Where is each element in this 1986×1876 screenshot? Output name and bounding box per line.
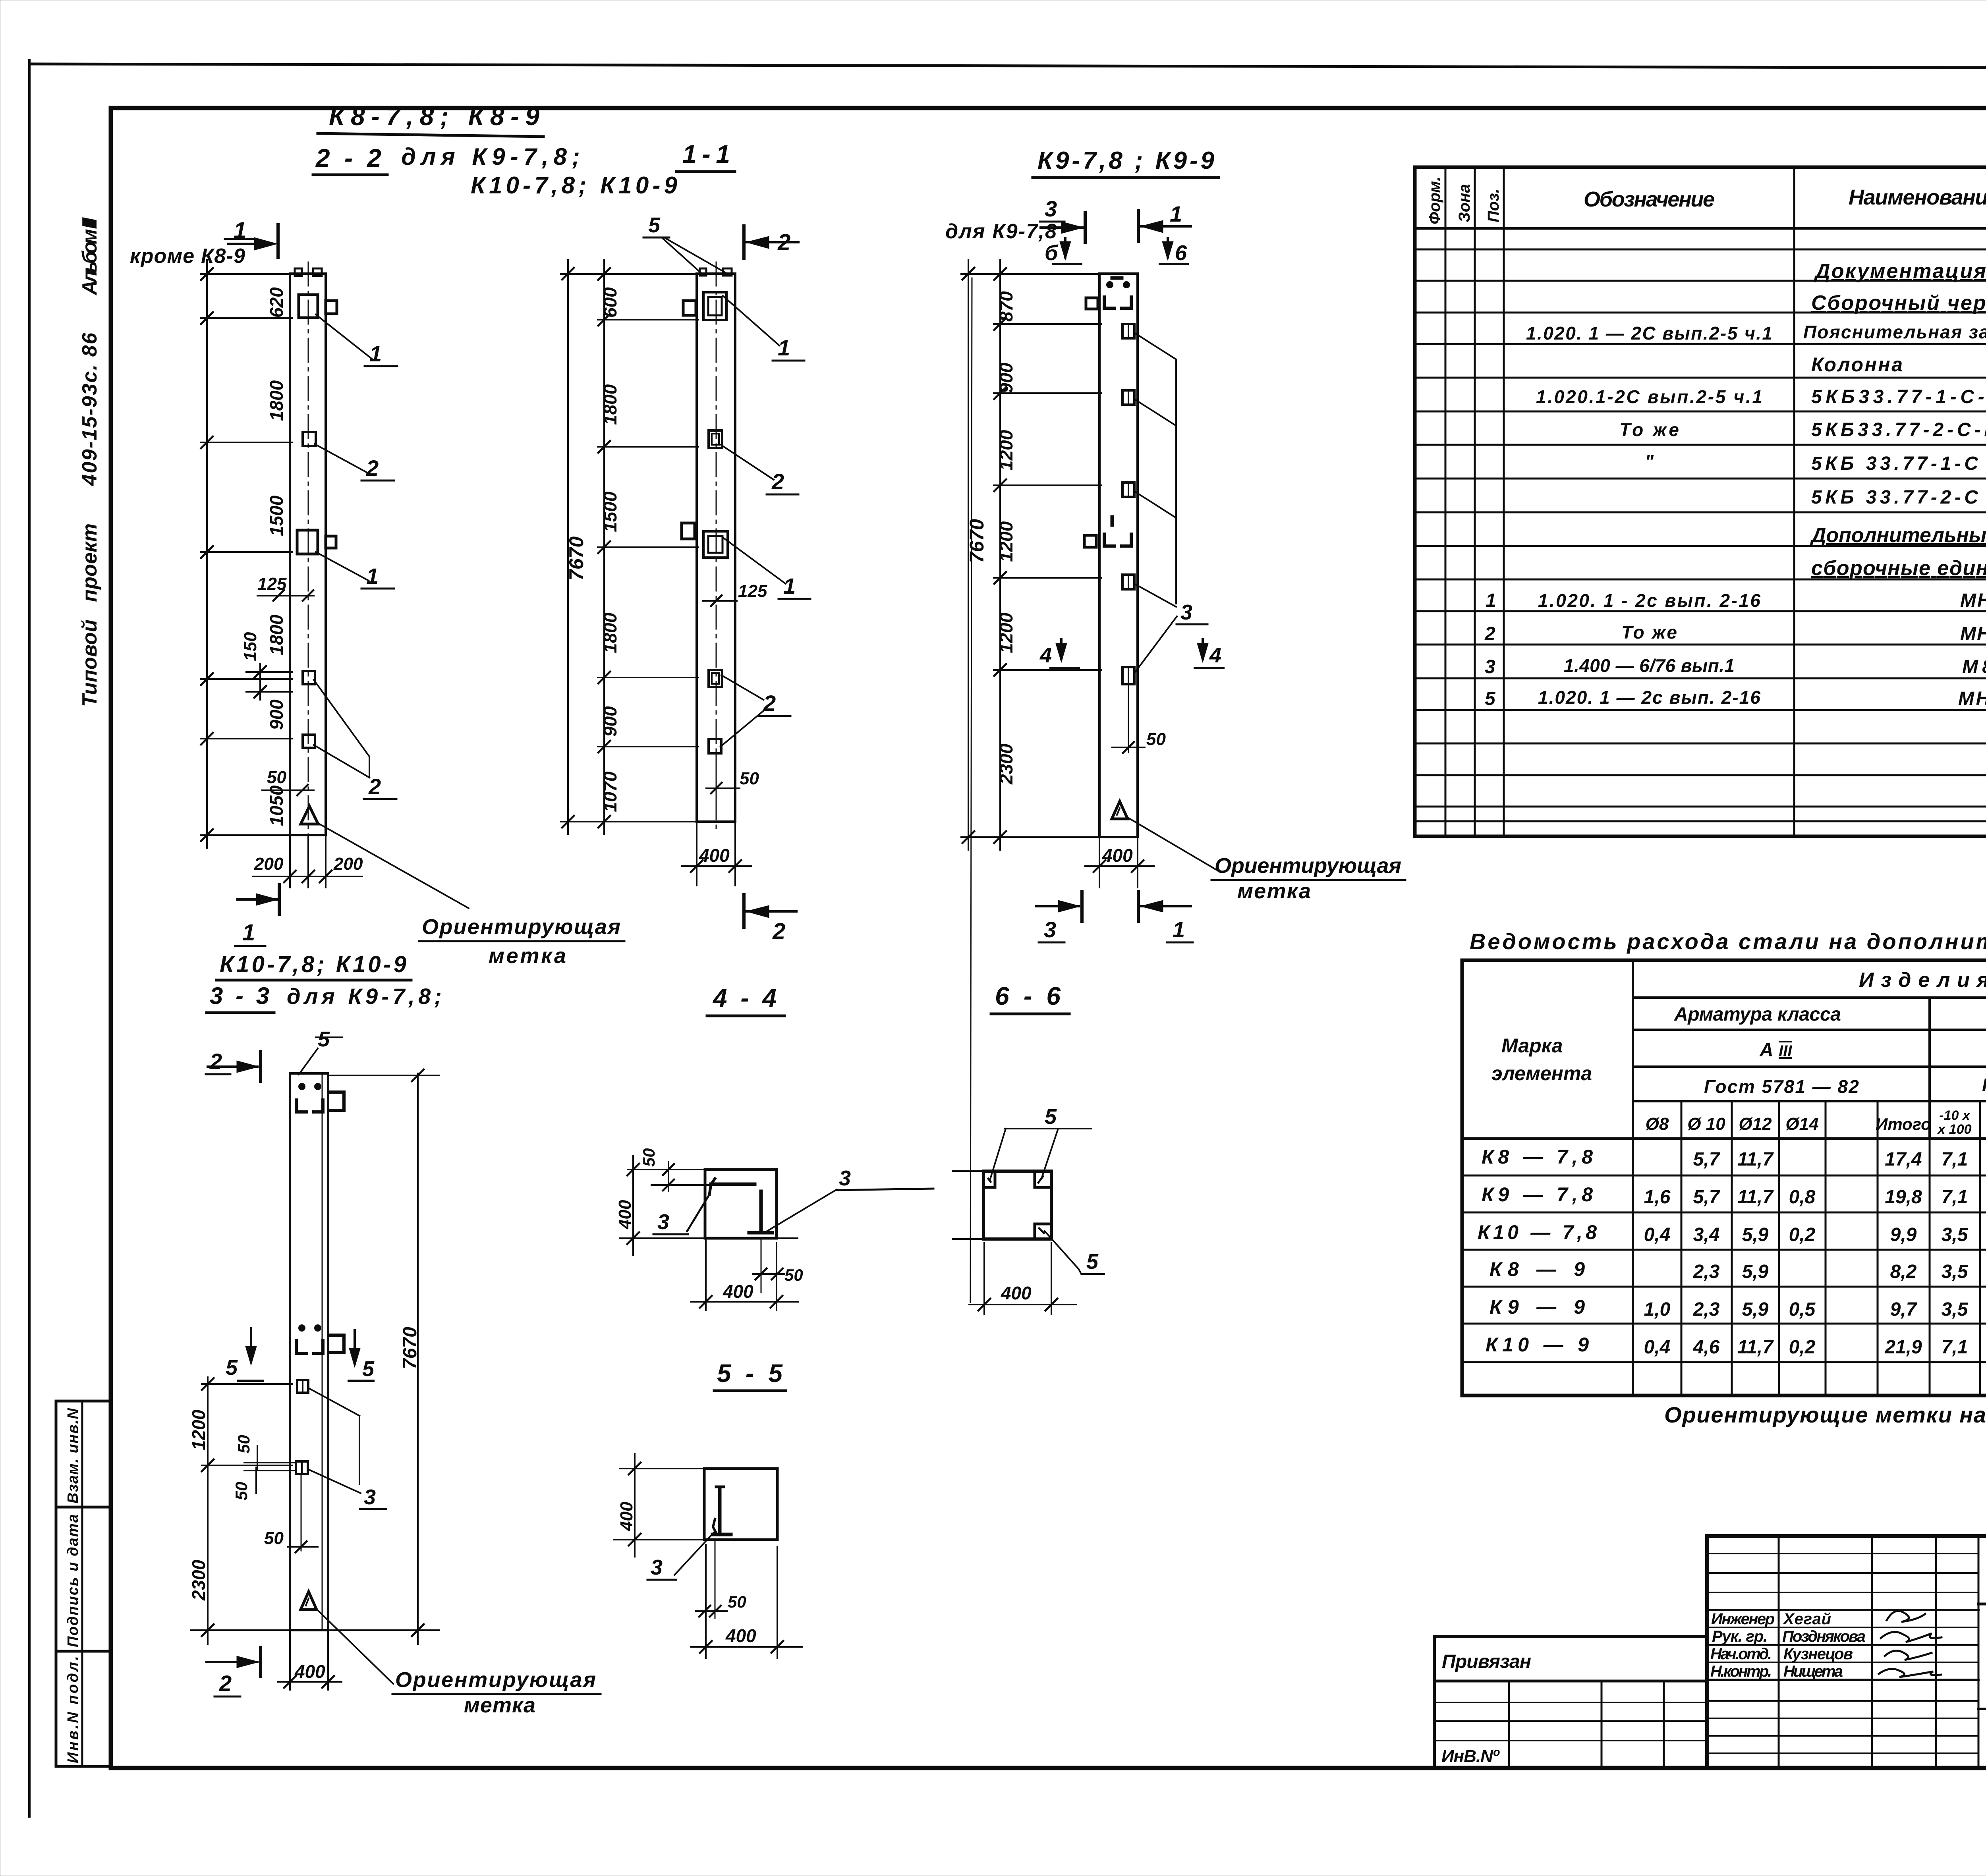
- leader r3: [1134, 491, 1176, 518]
- label 3 underline: [360, 1508, 386, 1510]
- tick bottom: [412, 1624, 424, 1636]
- leader 5 to left plate: [663, 238, 702, 274]
- svg-text:3,4: 3,4: [1693, 1224, 1720, 1245]
- title underline 1: [318, 133, 543, 137]
- plate row1 outer: [1122, 324, 1134, 338]
- rebar right foot: [749, 1231, 772, 1235]
- bottom edge extension: [620, 1237, 705, 1239]
- ext 900: [994, 392, 1101, 394]
- svg-text:50: 50: [639, 1148, 658, 1167]
- svg-text:К10-7,8; К10-9: К10-7,8; К10-9: [471, 172, 678, 199]
- svg-text:x 100: x 100: [1937, 1122, 1971, 1137]
- marker 4 left: underline: [1051, 667, 1079, 669]
- SECTION: drawing K8 (2-2): [130, 102, 678, 968]
- section marker 3 bottom: underline: [1039, 942, 1064, 944]
- leader a: [308, 1388, 359, 1416]
- section marker 3 bottom: bar: [1080, 892, 1084, 921]
- top left tab: [1086, 298, 1098, 309]
- marker 4 left: arrowhead: [1056, 643, 1067, 662]
- top notch right: [313, 268, 322, 276]
- svg-text:Ориентирующая: Ориентирующая: [422, 915, 620, 939]
- svg-text:2: 2: [777, 230, 790, 255]
- label 2b underline: [364, 798, 396, 800]
- marker 4 left: arrow line: [1060, 639, 1063, 658]
- section marker 2 bottom: arrow: [237, 1656, 259, 1668]
- top bar mark: [1112, 276, 1122, 280]
- ext 1200c: [994, 669, 1101, 671]
- plate b inner: [301, 1461, 303, 1474]
- svg-text:К10-7,8; К10-9: К10-7,8; К10-9: [220, 952, 406, 977]
- ext line 620: [201, 317, 292, 319]
- dim 125 line: [703, 600, 737, 602]
- svg-text:МН 13: МН 13: [1960, 623, 1986, 645]
- svg-text:Инженер: Инженер: [1711, 1610, 1775, 1628]
- section marker 1 top: arrow: [254, 237, 277, 250]
- svg-text:1.020. 1 — 2С вып.2-5 ч.1: 1.020. 1 — 2С вып.2-5 ч.1: [1526, 323, 1772, 344]
- spec header bottom: [1415, 227, 1986, 230]
- top right tab: [330, 1092, 344, 1110]
- Привязан verticals: [1509, 1681, 1664, 1768]
- left rows top: [1707, 1554, 1978, 1592]
- leader to label 2a: [315, 444, 369, 473]
- svg-text:Н.контр.: Н.контр.: [1710, 1663, 1772, 1680]
- plate row5 outer: [1122, 667, 1134, 684]
- svg-text:5: 5: [1045, 1105, 1057, 1129]
- ext line 1800b: [201, 678, 292, 680]
- svg-text:5,9: 5,9: [1742, 1261, 1769, 1282]
- svg-text:50: 50: [267, 768, 286, 787]
- leader 5 to right plate: [664, 237, 729, 275]
- section marker 1 top: bar: [276, 225, 280, 257]
- svg-text:11,7: 11,7: [1737, 1187, 1774, 1208]
- top weld dots: [1109, 284, 1110, 285]
- dim 150 line: [259, 664, 261, 700]
- bottom ext left: [696, 824, 697, 886]
- svg-text:1: 1: [242, 920, 255, 946]
- bottom ext right: [327, 1632, 329, 1690]
- svg-text:Документация: Документация: [1814, 260, 1986, 283]
- top corner bracket left: [296, 1100, 307, 1112]
- section marker 3 top: underline: [1040, 221, 1064, 223]
- dim 50 lines pair: [244, 1462, 296, 1463]
- section marker 2 bottom: line: [207, 1661, 257, 1663]
- corner plate BR: [1035, 1224, 1051, 1239]
- SECTION: steel table: [1462, 929, 1986, 1427]
- marker б left: arrowhead: [1060, 241, 1071, 260]
- ext top: [961, 273, 1101, 275]
- top corner bracket right: [1122, 297, 1131, 308]
- section marker 2 top: bar: [259, 1052, 262, 1081]
- title underline: [1033, 176, 1219, 179]
- dim 50 upper line: [257, 1446, 258, 1469]
- svg-text:для К9-7,8;: для К9-7,8;: [401, 143, 580, 170]
- svg-text:400: 400: [1001, 1283, 1032, 1303]
- ext left bottom: [952, 1238, 983, 1240]
- plate b outer: [296, 1461, 308, 1474]
- marker б left: arrow line: [1064, 238, 1066, 257]
- plate MH11 top tab: [683, 301, 696, 315]
- svg-text:21,9: 21,9: [1884, 1337, 1922, 1358]
- svg-text:1: 1: [366, 564, 379, 589]
- SECTION: section 5-5: [614, 1359, 802, 1658]
- svg-text:50: 50: [740, 769, 759, 788]
- svg-text:400: 400: [617, 1502, 636, 1531]
- plate MH13 b inner: [712, 673, 719, 684]
- svg-text:11,7: 11,7: [1737, 1149, 1774, 1170]
- ext mid: [202, 1465, 292, 1466]
- svg-text:Рук. гр.: Рук. гр.: [1712, 1628, 1768, 1645]
- svg-text:1200: 1200: [996, 612, 1016, 653]
- plate MH11 mid tab: [326, 536, 336, 548]
- label 1 underline: [773, 360, 804, 362]
- svg-text:Типовой проект: Типовой проект: [78, 523, 101, 707]
- svg-text:7670: 7670: [966, 519, 988, 563]
- plate MH13 a inner: [712, 434, 719, 445]
- svg-text:1.020.1-2С вып.2-5 ч.1: 1.020.1-2С вып.2-5 ч.1: [1536, 386, 1762, 407]
- dim 150 tick b: [254, 686, 266, 698]
- svg-text:МН 14: МН 14: [1958, 688, 1986, 709]
- svg-text:2: 2: [368, 774, 381, 799]
- corner plate TL: [983, 1171, 995, 1187]
- marker 6 right: underline: [1160, 263, 1188, 265]
- SECTION: section 4-4: [615, 984, 933, 1310]
- svg-text:50: 50: [784, 1266, 803, 1284]
- svg-text:МН 11: МН 11: [1960, 590, 1986, 611]
- plate MH13 c outer: [709, 739, 721, 753]
- dim 50 ref line: [1128, 684, 1129, 753]
- svg-text:Пояснительная записка: Пояснительная записка: [1803, 322, 1986, 342]
- Привязан row divider: [1434, 1680, 1707, 1683]
- label 3 underline: [1177, 623, 1207, 625]
- plate MH13 c: [303, 735, 315, 748]
- svg-text:400: 400: [723, 1281, 753, 1302]
- leader to 1: [723, 296, 779, 345]
- svg-text:Альбом III: Альбом III: [78, 217, 101, 296]
- svg-text:3: 3: [651, 1556, 663, 1579]
- leader to 2: [721, 445, 774, 480]
- bottom ext left vert: [983, 1243, 985, 1314]
- svg-text:5,7: 5,7: [1693, 1187, 1721, 1208]
- svg-text:5: 5: [1086, 1250, 1099, 1274]
- svg-text:2: 2: [209, 1049, 222, 1074]
- svg-text:Кузнецов: Кузнецов: [1783, 1645, 1853, 1663]
- top edge extension: [628, 1169, 705, 1170]
- plate MH13 b: [303, 671, 315, 684]
- dim 50 br ticks: [755, 1268, 783, 1280]
- svg-text:Гост 5781 — 82: Гост 5781 — 82: [1704, 1076, 1859, 1097]
- dim 50 line: [1112, 747, 1145, 748]
- svg-text:1200: 1200: [996, 521, 1016, 562]
- section marker 1 bottom: arrow: [1140, 900, 1163, 912]
- svg-text:4: 4: [1209, 643, 1221, 667]
- marker 5 left: arrow line: [250, 1328, 252, 1361]
- column inner edge: [322, 1073, 323, 1630]
- dim 400 line left: [632, 1156, 634, 1255]
- svg-text:Изделия: Изделия: [1859, 969, 1986, 992]
- svg-text:620: 620: [266, 287, 287, 318]
- svg-text:ГОСТ 103 - 76: ГОСТ 103 - 76: [1982, 1075, 1986, 1095]
- bottom dim 400 line: [691, 1646, 802, 1648]
- marka column divider: [1632, 960, 1634, 1395]
- svg-text:сборочные единицы: сборочные единицы: [1811, 557, 1986, 580]
- spec table outer: [1415, 167, 1986, 836]
- КЖИ header divider: [1978, 1603, 1986, 1606]
- ext line 1800b: [598, 677, 698, 678]
- outer ticks: [962, 268, 974, 843]
- left rows thick: [1707, 1609, 1978, 1611]
- label Ориентирующая underline: [419, 940, 624, 942]
- svg-text:3: 3: [657, 1210, 669, 1234]
- corner tick TL: [988, 1179, 991, 1182]
- svg-text:19,8: 19,8: [1885, 1187, 1922, 1208]
- ext line 900: [598, 746, 698, 747]
- dim 400 line left: [634, 1453, 636, 1557]
- dim 50 line: [696, 1610, 727, 1612]
- marker 4 right: arrowhead: [1197, 643, 1208, 662]
- svg-text:К9 — 7,8: К9 — 7,8: [1482, 1183, 1593, 1206]
- svg-text:1: 1: [369, 341, 382, 366]
- signature 1: [1887, 1611, 1925, 1622]
- svg-text:1050: 1050: [266, 785, 287, 826]
- dim 50 br line: [753, 1273, 784, 1275]
- svg-text:2: 2: [763, 691, 776, 716]
- dim 50 line: [262, 789, 314, 791]
- ext line 1800a: [598, 446, 698, 448]
- dim 50 vert line: [668, 1162, 669, 1191]
- svg-text:7,1: 7,1: [1942, 1337, 1968, 1358]
- square body 4-4: [705, 1170, 777, 1238]
- segment ticks: [598, 268, 610, 828]
- svg-text:5: 5: [1485, 688, 1496, 709]
- dim 50 tick: [1123, 742, 1134, 753]
- left strip divider 1: [56, 1506, 111, 1509]
- leader collector: [359, 1416, 360, 1484]
- section marker 2 top: underline: [206, 1073, 230, 1075]
- dim 50 bottom ref: [301, 1474, 302, 1551]
- svg-text:0,2: 0,2: [1789, 1337, 1816, 1358]
- svg-text:5КБ33.77-2-С-Н: 5КБ33.77-2-С-Н: [1811, 419, 1986, 440]
- steel table outer: [1462, 960, 1986, 1395]
- rebar hook left: [713, 1519, 716, 1532]
- section marker 1 bottom: underline: [235, 945, 265, 947]
- svg-text:1070: 1070: [600, 771, 620, 812]
- orientation inner tick: [306, 1598, 309, 1606]
- section marker 2 top: bar: [742, 226, 746, 258]
- bottom dim ticks: [284, 870, 332, 882]
- marker 4 right: arrow line: [1202, 639, 1204, 658]
- data row К8-7,8: [1482, 1146, 1986, 1170]
- section marker 1 bottom: line: [1140, 905, 1191, 907]
- svg-text:1500: 1500: [266, 495, 287, 536]
- ext line 1800a: [201, 442, 292, 443]
- mid corner bracket left: [296, 1340, 307, 1353]
- svg-text:0,2: 0,2: [1789, 1224, 1816, 1245]
- rebar top bar: [711, 1183, 755, 1186]
- rebar right vertical: [759, 1191, 763, 1231]
- bottom ext left: [289, 1632, 291, 1690]
- Колонна cell bottom: [1978, 1708, 1986, 1710]
- svg-text:2: 2: [1484, 623, 1495, 645]
- mid bar mark: [1111, 517, 1114, 525]
- plate MH13 a outer: [709, 430, 722, 448]
- svg-text:1800: 1800: [266, 614, 287, 655]
- outer ticks: [562, 268, 574, 828]
- dim 150 tick a: [254, 666, 266, 678]
- svg-text:3,5: 3,5: [1942, 1261, 1969, 1282]
- Привязан small rows: [1434, 1702, 1707, 1741]
- plate a outer: [297, 1380, 308, 1393]
- Привязан block outer: [1434, 1637, 1707, 1768]
- column body K9: [1099, 274, 1138, 837]
- svg-text:7,1: 7,1: [1942, 1149, 1968, 1170]
- orientation mark K8: [301, 806, 318, 824]
- svg-text:900: 900: [266, 699, 287, 730]
- bottom ext right vert: [777, 1547, 778, 1658]
- dim line vertical (segments): [206, 260, 208, 848]
- marker 5 left: arrowhead: [245, 1346, 257, 1365]
- title 6-6 underline: [991, 1013, 1069, 1015]
- header row line 1 (Изделия закладные bottom): [1633, 996, 1986, 999]
- section marker 2 bottom: arrow: [746, 905, 769, 918]
- svg-text:5: 5: [362, 1357, 375, 1381]
- svg-text:50: 50: [232, 1482, 251, 1500]
- svg-text:3,5: 3,5: [1942, 1299, 1969, 1320]
- SECTION: left margin: [56, 217, 111, 1766]
- plate row3 inner: [1128, 483, 1129, 497]
- SECTION: spec table: [1415, 167, 1986, 836]
- leader 5 top line: [1005, 1128, 1092, 1129]
- bottom ticks: [1093, 860, 1144, 872]
- svg-text:Ориентирующая: Ориентирующая: [395, 1668, 596, 1692]
- svg-text:0,4: 0,4: [1644, 1224, 1671, 1245]
- ext line 900: [201, 738, 292, 739]
- svg-text:2300: 2300: [188, 1559, 209, 1601]
- data row К8-9: [1489, 1258, 1986, 1282]
- ext 1200b: [994, 577, 1101, 579]
- svg-text:Ø8: Ø8: [1646, 1114, 1669, 1134]
- mid corner bracket right: [1122, 534, 1131, 546]
- section marker 2 top: arrow: [746, 236, 769, 249]
- top corner bracket left: [1104, 297, 1115, 308]
- svg-text:7670: 7670: [400, 1327, 421, 1369]
- ext line top: [201, 273, 292, 275]
- section marker 2 bottom: bar: [742, 895, 746, 927]
- svg-text:Форм.: Форм.: [1426, 177, 1443, 224]
- orientation inner tick: [1117, 808, 1120, 815]
- leader plate b: [314, 680, 369, 778]
- bottom ticks: [691, 860, 741, 872]
- marker 6 right: arrowhead: [1162, 241, 1173, 260]
- plate MH11 mid: [297, 530, 318, 554]
- label 1b underline: [361, 588, 394, 590]
- leader r5: [1134, 616, 1177, 673]
- rebar hook: [709, 1179, 715, 1195]
- marker 4 right: underline: [1195, 667, 1223, 669]
- section marker 1 top: bar: [1137, 210, 1140, 241]
- svg-text:К9-7,8 ; К9-9: К9-7,8 ; К9-9: [1037, 147, 1215, 174]
- dim 50 tick: [711, 783, 722, 793]
- segment ticks: [994, 268, 1006, 843]
- label 1b underline: [779, 598, 810, 600]
- svg-text:1200: 1200: [188, 1409, 209, 1450]
- section marker 3 top: bar: [1084, 212, 1087, 242]
- svg-text:1800: 1800: [266, 380, 287, 421]
- plate MH11 top: [299, 295, 318, 318]
- plate row3 outer: [1122, 483, 1134, 497]
- signature 4: [1879, 1669, 1941, 1677]
- ext 870: [994, 323, 1101, 325]
- leader to label 1: [316, 315, 373, 359]
- label 2b underline: [759, 715, 790, 717]
- armatura/prokat divider: [1928, 998, 1931, 1139]
- segment dim line: [999, 260, 1001, 850]
- svg-text:400: 400: [725, 1625, 756, 1646]
- section marker 2 bottom: underline: [214, 1696, 240, 1698]
- svg-text:элемента: элемента: [1491, 1062, 1592, 1085]
- SECTION: drawing 3-3: [188, 952, 601, 1717]
- ext 1200 top: [202, 1383, 292, 1385]
- svg-text:1800: 1800: [600, 384, 620, 425]
- bottom 400 ticks: [700, 1296, 782, 1308]
- plate row2 inner: [1128, 390, 1129, 405]
- section marker 2 top: line: [208, 1065, 257, 1068]
- segment dim line: [603, 260, 605, 834]
- top weld dots: [1106, 281, 1113, 288]
- label 5 underline: [643, 237, 669, 239]
- svg-text:400: 400: [615, 1200, 635, 1229]
- svg-text:3: 3: [839, 1166, 851, 1190]
- svg-text:Зона: Зона: [1456, 184, 1473, 222]
- leader collector: [1175, 359, 1177, 604]
- svg-text:К10 — 7,8: К10 — 7,8: [1478, 1221, 1597, 1243]
- dim 125 tick a: [273, 590, 284, 601]
- plate row5 inner: [1128, 667, 1129, 684]
- section marker 1 top: arrow: [1140, 220, 1163, 233]
- svg-text:1: 1: [1173, 917, 1185, 942]
- svg-text:1: 1: [1486, 590, 1496, 611]
- bottom dim line 200+200: [253, 876, 362, 877]
- svg-text:Итого: Итого: [1876, 1115, 1931, 1133]
- top notch left: [295, 268, 302, 276]
- left col verticals: [1779, 1536, 1978, 1768]
- svg-text:Арматура класса: Арматура класса: [1674, 1004, 1841, 1025]
- ext line top: [561, 273, 698, 275]
- section marker 1 bottom: line: [238, 898, 278, 901]
- top edge extension: [620, 1468, 704, 1469]
- svg-text:1-1: 1-1: [682, 140, 730, 168]
- ext line 1500: [201, 551, 292, 553]
- svg-text:900: 900: [996, 363, 1016, 393]
- svg-text:1: 1: [778, 335, 790, 360]
- orientation leader: [1127, 817, 1216, 870]
- header row line 4: [1633, 1100, 1986, 1102]
- svg-text:4,6: 4,6: [1693, 1337, 1720, 1358]
- title block outer: [1707, 1536, 1986, 1768]
- svg-text:0,4: 0,4: [1644, 1337, 1671, 1358]
- ext line bottom: [561, 821, 698, 822]
- leader r4: [1134, 584, 1176, 607]
- dim 150 ext a: [246, 671, 292, 673]
- svg-text:2: 2: [771, 469, 784, 494]
- plate row1 inner: [1128, 324, 1129, 338]
- svg-text:2: 2: [219, 1671, 232, 1696]
- data row К10-7,8: [1478, 1221, 1986, 1245]
- data row lines: [1462, 1175, 1986, 1362]
- ticks 400: [627, 1164, 639, 1244]
- dim 50 ticks: [663, 1164, 674, 1191]
- svg-text:Колонна: Колонна: [1811, 353, 1903, 376]
- ext line bottom: [201, 834, 292, 836]
